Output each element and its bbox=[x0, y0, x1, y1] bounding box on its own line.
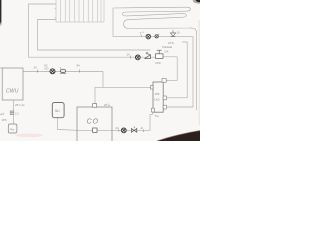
svg-text:Tskawał: Tskawał bbox=[162, 45, 172, 49]
3-way valve C50 with actuator bbox=[156, 50, 164, 58]
svg-text:84: 84 bbox=[77, 64, 81, 68]
valve V4 bbox=[132, 127, 137, 133]
svg-text:CWU: CWU bbox=[6, 89, 19, 95]
svg-text:24: 24 bbox=[34, 65, 38, 69]
CO box bbox=[77, 107, 112, 143]
tank left connector bbox=[151, 86, 154, 89]
tank bottom nub bbox=[152, 108, 155, 112]
CO top nub bbox=[93, 104, 97, 108]
tank top-right nub bbox=[162, 79, 166, 83]
wire branch to CO top bbox=[95, 87, 103, 103]
tank right nub lower bbox=[163, 105, 166, 109]
svg-text:1X: 1X bbox=[177, 31, 181, 35]
wire step after valve C50 bbox=[163, 57, 177, 81]
svg-text:2.2: 2.2 bbox=[15, 112, 19, 116]
wire cwu circuit bbox=[23, 72, 153, 88]
svg-text:NO: NO bbox=[45, 66, 49, 70]
small box Pw bbox=[8, 124, 17, 133]
pump P4 bbox=[121, 128, 126, 133]
wire co bottom row bbox=[58, 118, 151, 131]
boiler row: safety valve triangle bbox=[170, 30, 175, 36]
wire tank bottom feed bbox=[150, 111, 153, 130]
pump P1 bbox=[50, 69, 55, 74]
radiator tick left bbox=[55, 9, 57, 18]
cwu drain pipe bbox=[13, 100, 15, 124]
svg-text:ŁAD: ŁAD bbox=[154, 97, 159, 101]
wire inner return loop bbox=[38, 20, 151, 51]
wire outer supply loop bbox=[29, 4, 156, 57]
wire coil outlet right bbox=[196, 31, 198, 110]
svg-text:DX: DX bbox=[165, 50, 169, 54]
pump square in CO bbox=[93, 128, 97, 132]
pump P2 bbox=[135, 55, 140, 60]
CWU box bbox=[2, 68, 23, 100]
svg-text:ww̄: ww̄ bbox=[0, 112, 4, 116]
tank right nub upper bbox=[163, 96, 166, 100]
boiler row: small pump bbox=[155, 34, 159, 39]
valve V2 motor valve bbox=[145, 52, 151, 58]
svg-text:NU: NU bbox=[55, 109, 60, 113]
svg-text:25·1 tw: 25·1 tw bbox=[15, 103, 25, 107]
wire cwu box top edge extension bbox=[0, 67, 3, 69]
svg-text:C50: C50 bbox=[155, 61, 161, 65]
symbol small meter 2.2 bbox=[10, 111, 14, 115]
svg-text:1PS: 1PS bbox=[2, 118, 7, 122]
boiler row: pump P3 bbox=[146, 34, 151, 39]
DHW tank bbox=[153, 82, 163, 112]
wire boiler bottom row bbox=[113, 36, 193, 107]
NW box bbox=[52, 103, 64, 118]
svg-text:24: 24 bbox=[127, 53, 131, 57]
svg-text:T: T bbox=[140, 32, 142, 36]
svg-text:25 w̄: 25 w̄ bbox=[104, 103, 110, 107]
boiler coil serpentine bbox=[113, 7, 197, 36]
svg-text:CO: CO bbox=[87, 117, 99, 126]
svg-text:Δt: Δt bbox=[141, 126, 144, 130]
radiator HE1 bbox=[56, 0, 104, 22]
svg-text:WŻ: WŻ bbox=[155, 91, 160, 96]
svg-text:24: 24 bbox=[116, 126, 120, 130]
wire sensor stub right bbox=[167, 42, 187, 98]
valve V1 bbox=[60, 67, 66, 73]
